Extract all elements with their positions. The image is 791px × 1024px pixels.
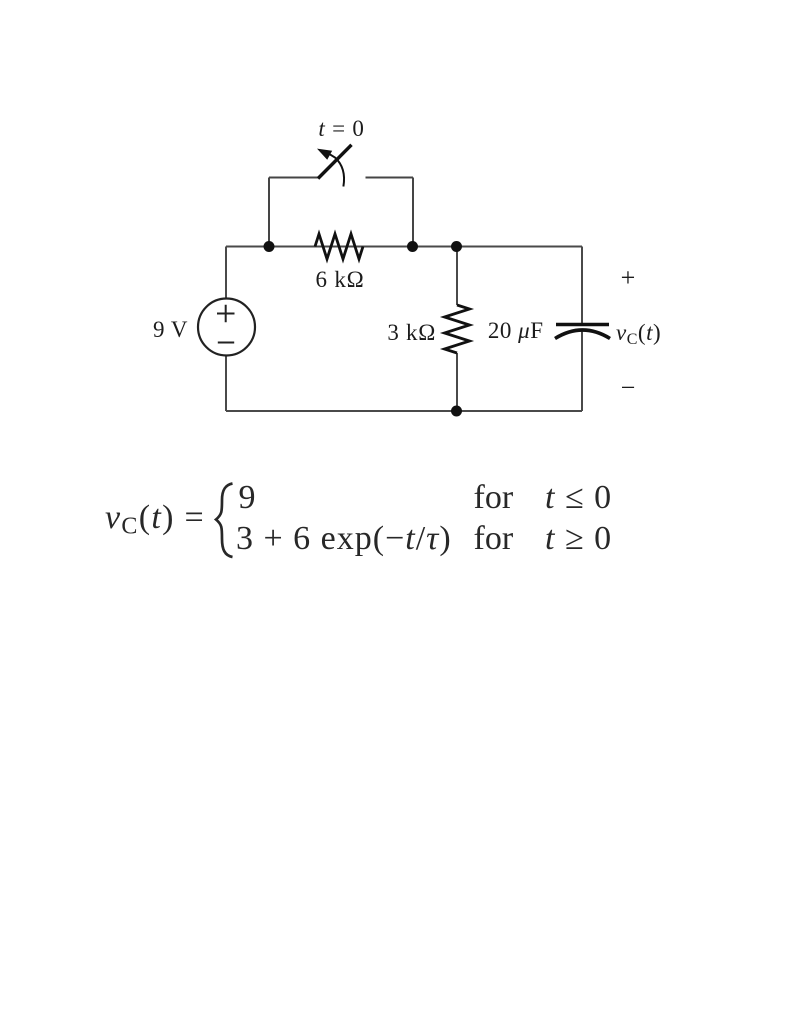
svg-text:vC(t) =: vC(t) = — [105, 499, 205, 540]
wire switch loop left vertical — [268, 178, 270, 247]
resistor R2 3k ohm (vertical zigzag) — [445, 305, 470, 353]
node C (3k branch top) — [451, 241, 462, 252]
wire switch loop right vertical — [412, 178, 414, 247]
wire switch loop right horizontal — [366, 177, 414, 179]
svg-text:6 kΩ: 6 kΩ — [315, 267, 364, 292]
switch motion arc — [329, 154, 344, 187]
wire top main from left corner to right corner — [226, 246, 582, 248]
capacitor C1 20uF — [555, 325, 610, 339]
svg-text:t ≥ 0: t ≥ 0 — [545, 520, 612, 557]
svg-text:t = 0: t = 0 — [318, 116, 364, 141]
source minus sign — [218, 342, 234, 344]
wire 3k branch lower — [456, 353, 458, 411]
wire: outer loop bottom — [226, 247, 582, 412]
svg-text:vC(t): vC(t) — [616, 320, 661, 348]
svg-text:−: − — [621, 373, 636, 402]
voltage source V1 9V — [198, 299, 255, 356]
switch blade — [318, 145, 352, 179]
svg-text:for: for — [474, 520, 514, 557]
node B (top-right of 6k) — [407, 241, 418, 252]
svg-text:20 μF: 20 μF — [488, 318, 544, 343]
equation vC(t) definition — [105, 479, 612, 557]
svg-text:3 + 6 exp(−t/τ): 3 + 6 exp(−t/τ) — [236, 520, 452, 557]
wire right vertical upper (top wire to capacitor) — [581, 247, 583, 325]
capacitor bottom curved plate — [555, 330, 610, 339]
wire bottom main — [226, 410, 582, 412]
switch arrowhead — [317, 149, 332, 160]
wire left vertical lower (source bottom to bottom wire) — [225, 356, 227, 411]
node D (3k branch bottom) — [451, 406, 462, 417]
resistor R1 6k ohm (horizontal zigzag) — [315, 234, 363, 259]
svg-text:3 kΩ: 3 kΩ — [387, 320, 436, 345]
node A (top-left junction) — [264, 241, 275, 252]
svg-text:for: for — [474, 479, 514, 516]
svg-text:+: + — [621, 263, 636, 292]
svg-text:9: 9 — [239, 479, 256, 516]
wire switch loop left horizontal — [269, 177, 319, 179]
wire 3k branch upper — [456, 247, 458, 306]
svg-text:9 V: 9 V — [153, 317, 188, 342]
switch SW1 (opens at t=0) — [317, 145, 352, 187]
switch loop wires — [269, 178, 413, 247]
svg-text:t ≤ 0: t ≤ 0 — [545, 479, 612, 516]
wire right vertical lower (capacitor to bottom wire) — [581, 330, 583, 411]
source plus sign — [217, 305, 235, 322]
wire left vertical upper (source top to top wire) — [225, 247, 227, 299]
capacitor top plate — [556, 323, 609, 327]
eq big brace — [216, 484, 233, 558]
